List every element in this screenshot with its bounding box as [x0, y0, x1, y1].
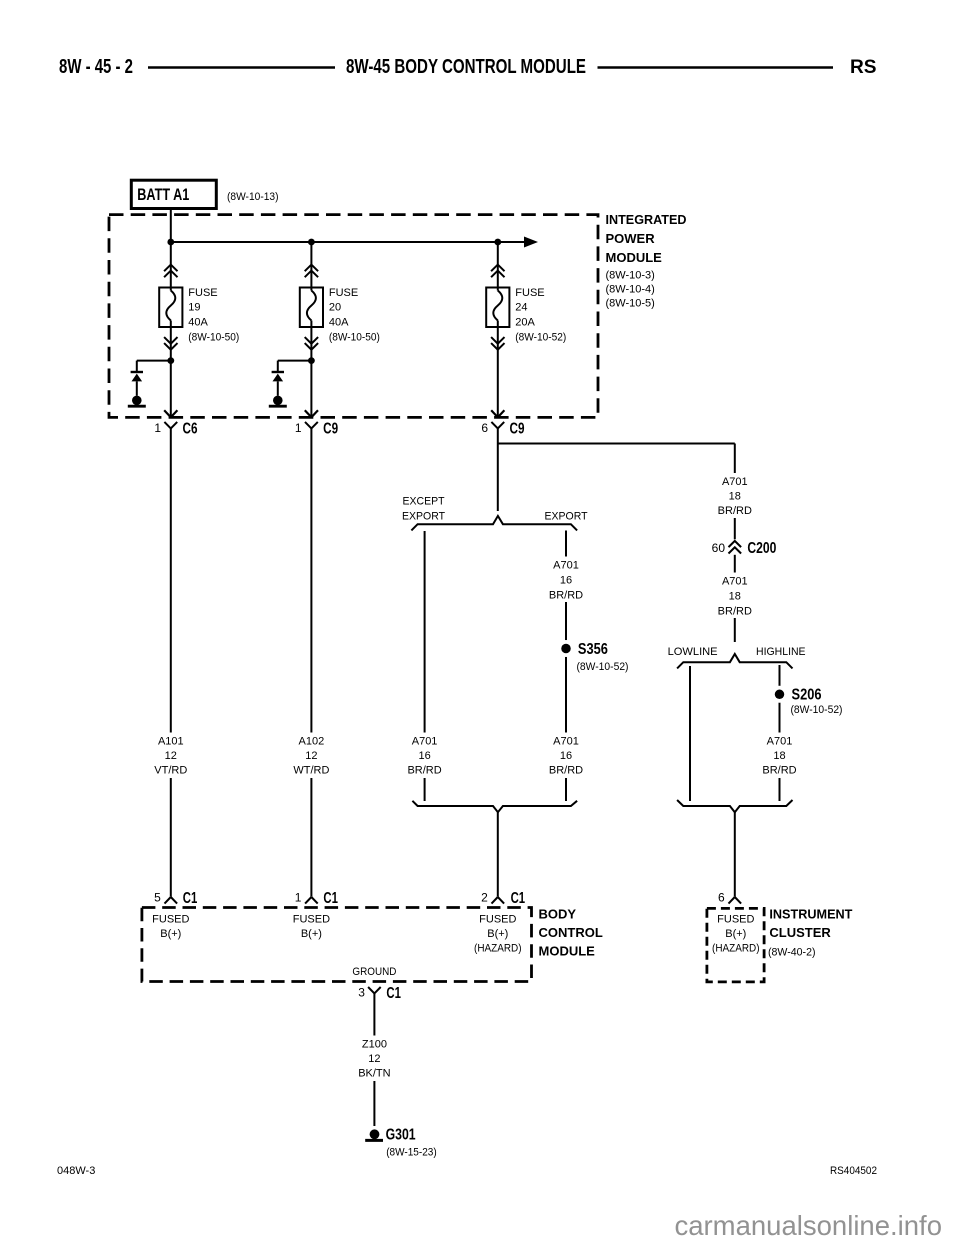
svg-text:A102: A102: [299, 736, 325, 748]
wire lowline branch: [689, 666, 691, 801]
wire BCM pin 3 to ground: [373, 993, 375, 1126]
svg-text:1: 1: [295, 890, 302, 904]
svg-text:048W-3: 048W-3: [57, 1165, 95, 1177]
svg-text:18: 18: [729, 590, 741, 602]
wire fuse20 branch upper: [310, 242, 312, 291]
svg-text:12: 12: [305, 750, 317, 762]
svg-text:12: 12: [368, 1053, 380, 1065]
splice S206: [771, 686, 788, 703]
BCM pin 2 function label FUSED B(+) (HAZARD): [474, 914, 522, 955]
header rule right: [598, 66, 834, 69]
svg-text:16: 16: [560, 574, 572, 586]
svg-text:FUSED: FUSED: [152, 914, 189, 926]
svg-text:A701: A701: [553, 559, 579, 571]
wire fuse19 branch lower: [170, 321, 172, 417]
fuse F24: [486, 265, 509, 350]
svg-text:20: 20: [329, 302, 341, 314]
wire branch to C200 horizontal: [498, 443, 735, 445]
svg-text:RS404502: RS404502: [830, 1165, 877, 1177]
integrated power module box (dashed): [109, 215, 598, 418]
svg-text:FUSE: FUSE: [329, 287, 358, 299]
svg-text:1: 1: [154, 421, 161, 435]
svg-text:FUSE: FUSE: [188, 287, 217, 299]
connector C1 pin 1 fork symbol: [305, 897, 318, 904]
cluster pin 6 function label FUSED B(+) (HAZARD): [712, 914, 760, 955]
svg-text:A701: A701: [722, 575, 748, 587]
svg-text:C1: C1: [386, 985, 401, 1002]
wire power bus: [171, 241, 526, 243]
connector C9 in-line symbol (fuse 20): [305, 410, 318, 428]
wire diode D1 to ground ball: [136, 381, 138, 395]
svg-text:19: 19: [188, 302, 200, 314]
svg-text:FUSED: FUSED: [479, 914, 516, 926]
option merge brace (to BCM pin 2): [412, 801, 577, 812]
svg-text:BR/RD: BR/RD: [762, 765, 796, 777]
connector pin 6 fork symbol (instrument cluster): [729, 897, 742, 904]
svg-text:B(+): B(+): [160, 928, 181, 940]
svg-text:INSTRUMENT: INSTRUMENT: [769, 907, 852, 922]
svg-text:A101: A101: [158, 736, 184, 748]
svg-text:BODY: BODY: [539, 907, 577, 922]
svg-text:(8W-40-2): (8W-40-2): [768, 946, 816, 958]
svg-text:FUSE: FUSE: [515, 287, 544, 299]
connector C1 pin 3 fork symbol: [368, 987, 381, 993]
connector C6 in-line symbol (fuse 19): [164, 410, 177, 428]
wire C9-1 stem down to BCM pin 1: [310, 428, 312, 896]
wire fuse20 branch lower: [310, 321, 312, 417]
svg-text:B(+): B(+): [301, 928, 322, 940]
battery feed box BATT A1: [131, 180, 216, 208]
wire C6 stem down to BCM pin 5: [170, 428, 172, 896]
svg-text:FUSED: FUSED: [293, 914, 330, 926]
svg-text:FUSED: FUSED: [717, 914, 754, 926]
wire fuse24 branch upper: [497, 242, 499, 291]
svg-text:CLUSTER: CLUSTER: [769, 925, 831, 940]
svg-text:(8W-10-3): (8W-10-3): [606, 270, 655, 282]
wire export branch: [565, 531, 567, 802]
ground ball symbol (fuse 20 branch): [269, 396, 287, 407]
svg-text:8W - 45 - 2: 8W - 45 - 2: [59, 56, 133, 78]
diode D1: [131, 372, 143, 381]
svg-text:CONTROL: CONTROL: [539, 925, 603, 940]
svg-text:EXCEPT: EXCEPT: [403, 495, 445, 507]
svg-text:C6: C6: [183, 421, 198, 438]
svg-text:BR/RD: BR/RD: [549, 765, 583, 777]
svg-text:BR/RD: BR/RD: [549, 590, 583, 602]
node fuse20 output junction: [308, 357, 315, 364]
svg-text:POWER: POWER: [606, 231, 656, 246]
svg-text:(8W-10-4): (8W-10-4): [606, 284, 655, 296]
svg-text:HIGHLINE: HIGHLINE: [756, 646, 806, 658]
svg-text:1: 1: [295, 421, 302, 435]
svg-text:C1: C1: [323, 890, 338, 907]
wire C9-6 stem down to split: [497, 428, 499, 511]
bus arrowhead: [524, 237, 538, 248]
label EXCEPT EXPORT: [402, 495, 445, 522]
integrated power module references: [606, 270, 655, 310]
svg-text:B(+): B(+): [487, 928, 508, 940]
ground G301 symbol: [365, 1129, 383, 1140]
svg-text:S206: S206: [792, 687, 822, 704]
wire label A101 12 VT/RD: [151, 733, 191, 779]
svg-text:C200: C200: [747, 540, 776, 557]
svg-text:(8W-10-50): (8W-10-50): [188, 331, 239, 343]
svg-text:EXPORT: EXPORT: [545, 510, 588, 522]
svg-text:6: 6: [481, 421, 488, 435]
option split brace (lowline / highline): [677, 654, 792, 668]
wire label A701 16 BR/RD (export lower): [546, 733, 586, 779]
node fuse19 output junction: [167, 357, 174, 364]
svg-text:A701: A701: [412, 736, 438, 748]
fuse F20 value label: [329, 287, 380, 343]
svg-text:G301: G301: [386, 1127, 416, 1144]
svg-text:(HAZARD): (HAZARD): [474, 943, 522, 955]
svg-text:EXPORT: EXPORT: [402, 510, 445, 522]
wire fuse19 side branch: [137, 361, 171, 371]
svg-text:BK/TN: BK/TN: [358, 1067, 390, 1079]
wire label A701 18 BR/RD (highline): [760, 733, 800, 779]
wire diode D2 to ground ball: [277, 381, 279, 395]
svg-text:BR/RD: BR/RD: [718, 605, 752, 617]
svg-text:40A: 40A: [329, 317, 349, 329]
svg-text:16: 16: [418, 750, 430, 762]
wire label A701 16 BR/RD (export upper): [546, 557, 586, 603]
svg-text:2: 2: [481, 890, 488, 904]
svg-text:S356: S356: [578, 641, 608, 658]
BCM pin 1 function label FUSED B(+): [293, 914, 330, 940]
option split brace (except export / export): [411, 516, 577, 531]
wire merged stem to cluster pin 6: [734, 812, 736, 896]
svg-text:RS: RS: [850, 56, 877, 78]
svg-text:MODULE: MODULE: [539, 943, 596, 958]
fuse F19 value label: [188, 287, 239, 343]
svg-text:INTEGRATED: INTEGRATED: [606, 212, 687, 227]
wire highline branch: [779, 665, 781, 801]
svg-text:(8W-10-13): (8W-10-13): [227, 191, 279, 203]
svg-text:(8W-10-52): (8W-10-52): [515, 331, 566, 343]
option merge brace (to cluster pin 6): [677, 800, 792, 812]
svg-text:(8W-10-52): (8W-10-52): [791, 704, 843, 716]
svg-text:carmanualsonline.info: carmanualsonline.info: [674, 1210, 942, 1241]
splice S356: [558, 640, 575, 657]
svg-text:BR/RD: BR/RD: [718, 505, 752, 517]
svg-text:(8W-15-23): (8W-15-23): [386, 1147, 437, 1159]
wire fuse24 branch lower: [497, 321, 499, 417]
svg-text:BATT A1: BATT A1: [137, 186, 189, 204]
svg-text:MODULE: MODULE: [606, 250, 663, 265]
svg-text:C1: C1: [183, 890, 198, 907]
svg-text:6: 6: [718, 890, 725, 904]
svg-text:C1: C1: [511, 890, 526, 907]
svg-text:(8W-10-50): (8W-10-50): [329, 331, 380, 343]
svg-text:16: 16: [560, 750, 572, 762]
wire label A701 16 BR/RD (except export): [405, 733, 445, 779]
wire label A102 12 WT/RD: [291, 733, 331, 779]
fuse F19: [159, 265, 182, 350]
svg-text:GROUND: GROUND: [352, 966, 396, 978]
fuse F24 value label: [515, 287, 566, 343]
svg-text:C9: C9: [323, 421, 338, 438]
header rule left: [148, 66, 335, 69]
connector C1 pin 2 fork symbol: [492, 897, 505, 904]
svg-text:A701: A701: [722, 476, 748, 488]
svg-text:3: 3: [358, 986, 365, 1000]
wire except-export branch: [424, 531, 426, 801]
svg-text:(8W-10-52): (8W-10-52): [577, 661, 629, 673]
svg-text:C9: C9: [510, 421, 525, 438]
node bus junction B: [308, 239, 315, 246]
svg-text:(8W-10-5): (8W-10-5): [606, 298, 655, 310]
svg-text:A701: A701: [767, 736, 793, 748]
svg-text:(HAZARD): (HAZARD): [712, 943, 760, 955]
wire label A701 18 BR/RD (below C200): [715, 573, 755, 619]
svg-text:20A: 20A: [515, 317, 535, 329]
body control module box (dashed): [142, 908, 532, 982]
wire fuse19 branch upper: [170, 242, 172, 291]
connector C9 in-line symbol (fuse 24): [491, 410, 504, 428]
body control module name: [539, 907, 603, 959]
integrated power module name: [606, 212, 687, 265]
diode D2: [272, 372, 284, 381]
svg-text:60: 60: [712, 541, 726, 555]
fuse F20: [300, 265, 323, 350]
connector C1 pin 5 fork symbol: [165, 897, 178, 904]
wire label Z100 12 BK/TN: [354, 1036, 394, 1082]
svg-text:BR/RD: BR/RD: [407, 765, 441, 777]
svg-text:WT/RD: WT/RD: [293, 765, 329, 777]
wire C200 column vertical: [734, 444, 736, 643]
node bus junction A: [167, 239, 174, 246]
svg-text:12: 12: [165, 750, 177, 762]
svg-text:24: 24: [515, 302, 527, 314]
wire fuse20 side branch: [278, 361, 312, 371]
svg-text:18: 18: [729, 490, 741, 502]
svg-text:8W-45 BODY CONTROL MODULE: 8W-45 BODY CONTROL MODULE: [346, 56, 586, 78]
svg-text:VT/RD: VT/RD: [154, 765, 187, 777]
wire battery drop: [170, 209, 172, 243]
svg-text:B(+): B(+): [725, 928, 746, 940]
connector C200 symbol: [726, 539, 743, 555]
svg-text:40A: 40A: [188, 317, 208, 329]
wire label A701 18 BR/RD (above C200): [715, 473, 755, 518]
wire merged stem to BCM pin 2: [497, 812, 499, 896]
instrument cluster box (dashed): [707, 908, 764, 982]
svg-text:18: 18: [773, 750, 785, 762]
instrument cluster name: [769, 907, 852, 941]
svg-text:Z100: Z100: [362, 1038, 387, 1050]
node bus junction C: [494, 239, 501, 246]
BCM pin 5 function label FUSED B(+): [152, 914, 189, 940]
svg-text:LOWLINE: LOWLINE: [668, 646, 718, 658]
ground ball symbol (fuse 19 branch): [128, 396, 146, 407]
svg-text:5: 5: [154, 890, 161, 904]
svg-text:A701: A701: [553, 736, 579, 748]
